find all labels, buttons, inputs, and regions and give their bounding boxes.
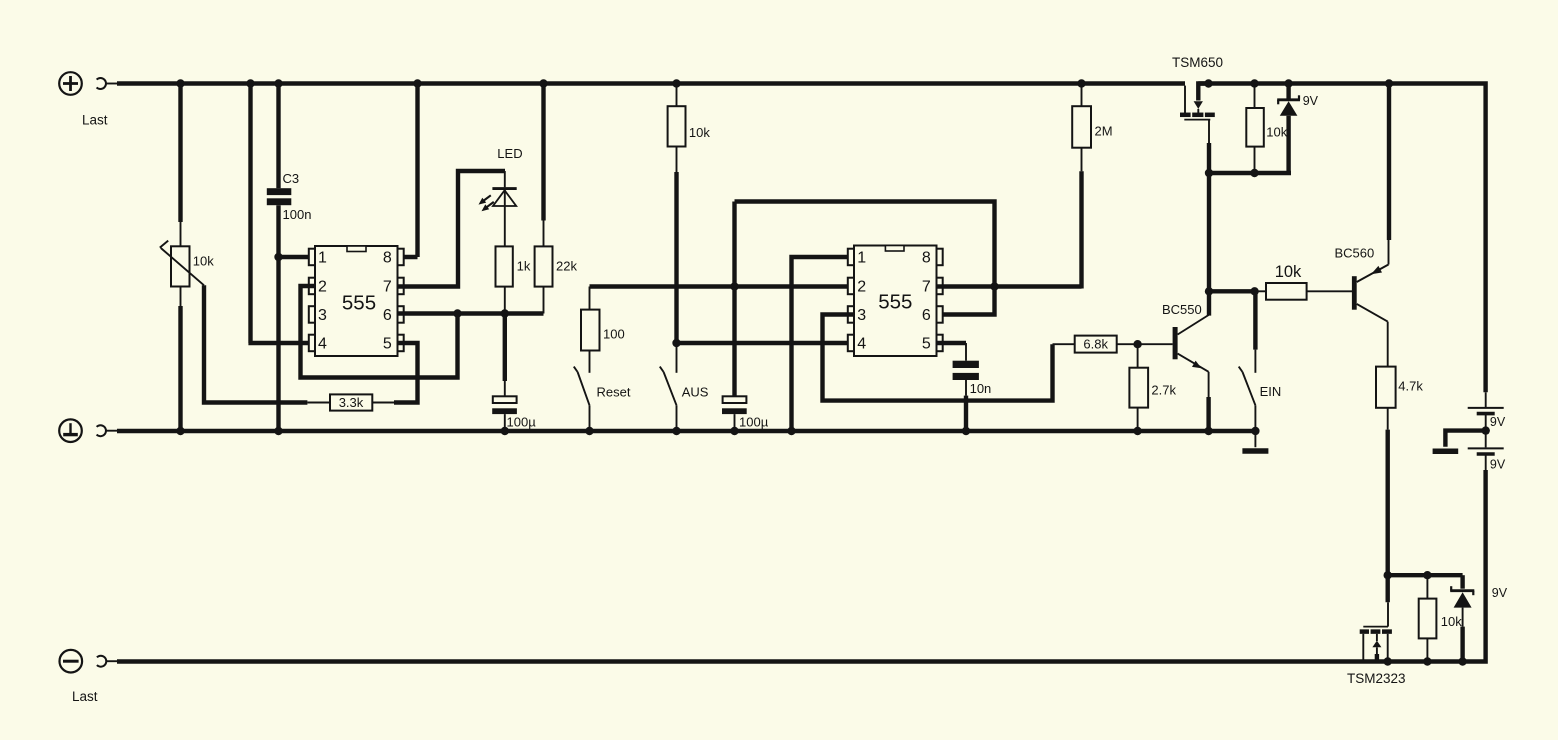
U1 notch [347, 246, 366, 252]
connector arc minus terminal [97, 656, 118, 667]
ground bar battery [1433, 448, 1459, 454]
resistor R6 100 [581, 287, 600, 351]
svg-text:1: 1 [318, 250, 327, 267]
wire minus rail bottom [117, 470, 1486, 662]
wire BC550 emitter to GND [1204, 372, 1212, 435]
resistor R8 6.8k [1075, 336, 1117, 353]
U2 pin numbers [857, 250, 931, 353]
wire 2M to U2 pin 7 [1081, 148, 1083, 289]
transistor Q3 BC560 [1352, 240, 1389, 322]
svg-text:5: 5 [383, 336, 392, 353]
svg-text:LED: LED [497, 146, 522, 161]
wire U1 pin 2 loop to pin 6 net [301, 286, 458, 378]
svg-text:100: 100 [603, 327, 625, 342]
svg-text:7: 7 [383, 279, 392, 296]
svg-text:6.8k: 6.8k [1083, 337, 1108, 352]
svg-text:TSM2323: TSM2323 [1347, 671, 1406, 686]
ground bar EIN [1242, 448, 1268, 454]
wire R5 to U2 pin 4 and AUS [672, 147, 680, 348]
wire U1 pin 6 row [398, 309, 544, 317]
svg-text:Last: Last [72, 689, 98, 704]
U1 pin boxes left [309, 249, 315, 352]
junction dot [176, 79, 184, 87]
terminal - (minus) [60, 650, 83, 673]
svg-text:2.7k: 2.7k [1151, 383, 1176, 398]
wire 10k drive to BC560 base [1307, 290, 1352, 292]
switch EIN [1239, 291, 1260, 447]
U1 pin numbers [318, 250, 392, 353]
transistor Q2 TSM650 P-MOSFET [1180, 84, 1215, 120]
wire U2 pin 4 [677, 341, 855, 345]
capacitor C4 10n [953, 361, 979, 380]
svg-text:9V: 9V [1303, 94, 1319, 108]
resistor R11 10k drive [1266, 283, 1307, 300]
resistor R12 4.7k [1376, 322, 1396, 430]
wire U2 pins 2-6 top loop [735, 202, 995, 315]
switch AUS [660, 345, 681, 435]
wire bus drop to U1 pin 4 [246, 79, 315, 343]
wire 10n to GND [962, 380, 970, 435]
wire bus drop to C3 [274, 79, 282, 188]
svg-text:TSM650: TSM650 [1172, 55, 1223, 70]
svg-text:6: 6 [922, 307, 931, 324]
svg-text:10k: 10k [1441, 614, 1462, 629]
battery B2 9V [1468, 431, 1504, 470]
svg-text:100n: 100n [283, 207, 312, 222]
svg-text:10n: 10n [970, 381, 992, 396]
svg-text:1k: 1k [517, 259, 531, 274]
wire U2 pin 5 to 10n [937, 343, 967, 361]
svg-text:BC550: BC550 [1162, 302, 1202, 317]
resistor R4 22k [535, 246, 553, 313]
battery B1 9V [1468, 392, 1504, 430]
svg-text:BC560: BC560 [1335, 246, 1375, 261]
resistor R2 3.3k [307, 394, 396, 410]
wire TSM650 gate down [1205, 120, 1213, 316]
svg-text:Reset: Reset [597, 385, 631, 400]
svg-text:3: 3 [318, 307, 327, 324]
wire gate node horizontal [1207, 169, 1291, 177]
capacitor C1 100u [492, 314, 517, 436]
resistor R5 10k [668, 106, 686, 146]
svg-text:9V: 9V [1492, 586, 1508, 600]
svg-text:1: 1 [857, 250, 866, 267]
svg-text:2: 2 [318, 279, 327, 296]
wire U2 pin 3 to 6.8k [823, 315, 1076, 401]
wire U2 pin 7 to 2M [937, 282, 1082, 290]
resistor R7 2M [1072, 106, 1091, 148]
wire bus drop to 22k [539, 79, 547, 246]
potentiometer R 10k [160, 241, 204, 287]
connector arc ground terminal [97, 425, 118, 436]
wire bus to BC560 emitter [1385, 79, 1393, 240]
transistor Q4 TSM2323 N-MOSFET [1360, 602, 1392, 665]
svg-text:10k: 10k [689, 125, 710, 140]
wire C3 bottom through pin1 to GND [274, 205, 282, 435]
svg-text:4: 4 [318, 336, 327, 353]
svg-text:10k: 10k [193, 253, 214, 268]
svg-text:9V: 9V [1490, 415, 1506, 429]
svg-text:3: 3 [857, 307, 866, 324]
zener diode D2 9V [1277, 79, 1300, 173]
LED light arrows [479, 195, 494, 211]
svg-text:Last: Last [82, 113, 108, 128]
svg-text:6: 6 [383, 307, 392, 324]
zener diode D3 9V bottom [1450, 575, 1474, 666]
wire U2 pin 1 to GND [787, 257, 854, 435]
U2 notch [885, 246, 904, 252]
connector arc plus terminal [97, 78, 118, 89]
wire VCC top bus right segment [1198, 84, 1485, 393]
svg-text:9V: 9V [1490, 458, 1506, 472]
svg-text:10k: 10k [1266, 125, 1287, 140]
svg-text:5: 5 [922, 336, 931, 353]
op-amp U1 555 body [315, 246, 398, 356]
resistor R10 10k gate pullup [1246, 79, 1264, 173]
wire U1 pin 7 up to LED [398, 171, 506, 287]
svg-text:555: 555 [342, 292, 376, 315]
junction dot TSM650 body on bus [1204, 79, 1212, 87]
svg-text:2: 2 [857, 279, 866, 296]
svg-text:8: 8 [922, 250, 931, 267]
svg-text:555: 555 [878, 291, 912, 314]
wire U1 pin 5 to 3.3k [394, 343, 418, 403]
capacitor C2 100u [722, 202, 747, 436]
svg-text:4.7k: 4.7k [1398, 379, 1423, 394]
svg-text:7: 7 [922, 279, 931, 296]
resistor R3 1k [496, 246, 513, 313]
U2 pin boxes left [848, 249, 854, 352]
wire U2 pin 2 row [590, 282, 855, 290]
U1 pin boxes right [398, 249, 404, 352]
wire U1 pin 1 [277, 255, 316, 259]
wire 6.8k to BC550 base [1117, 340, 1173, 348]
U2 pin boxes right [937, 249, 943, 352]
resistor R9 2.7k [1129, 344, 1148, 435]
wire potentiometer bottom to GND [176, 287, 184, 436]
LED D1 [492, 171, 516, 246]
svg-text:10k: 10k [1275, 263, 1302, 281]
wire 4.7k down to TSM2323 gate [1384, 430, 1392, 603]
svg-text:100µ: 100µ [507, 415, 537, 430]
svg-text:C3: C3 [283, 171, 300, 186]
op-amp U2 555 body [854, 246, 937, 357]
wire GND bus [117, 429, 1257, 433]
svg-text:3.3k: 3.3k [339, 395, 364, 410]
wire potentiometer wiper to 3.3k [204, 285, 307, 402]
wire battery centre tap to ground [1445, 426, 1490, 446]
svg-text:8: 8 [383, 250, 392, 267]
svg-text:22k: 22k [556, 259, 577, 274]
transistor Q1 BC550 [1173, 315, 1209, 372]
svg-text:AUS: AUS [682, 385, 709, 400]
wire bus drop to R5 10k [672, 79, 680, 106]
svg-text:100µ: 100µ [739, 415, 769, 430]
wire bus drop to potentiometer [178, 84, 182, 223]
wire gate node to 10k drive [1209, 287, 1266, 295]
wire VCC top bus left segment [117, 81, 1185, 85]
svg-text:EIN: EIN [1260, 384, 1282, 399]
svg-text:2M: 2M [1095, 124, 1113, 139]
capacitor C3 [267, 188, 292, 205]
wire gate node bottom horizontal [1388, 571, 1463, 579]
wire bus drop to 2M [1077, 79, 1085, 106]
terminal ground [59, 419, 82, 442]
resistor R13 10k bottom [1419, 575, 1437, 666]
wire bus drop to U1 pin 8 [398, 79, 422, 257]
switch Reset [574, 351, 594, 436]
svg-text:4: 4 [857, 336, 866, 353]
terminal + (plus) [59, 72, 82, 95]
